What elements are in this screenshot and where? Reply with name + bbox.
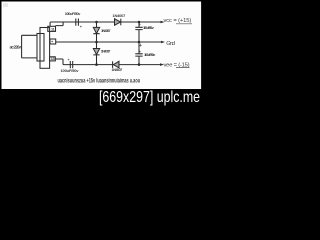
svg-text:+: + [139, 50, 141, 54]
svg-text:11: 11 [51, 28, 55, 32]
svg-text:1N4007: 1N4007 [113, 13, 127, 18]
svg-text:1N4007: 1N4007 [112, 67, 124, 72]
svg-text:vcc = (+15): vcc = (+15) [164, 18, 192, 24]
svg-text:13: 13 [51, 57, 55, 61]
svg-text:1N4007: 1N4007 [101, 48, 111, 53]
svg-text:100uF/50v: 100uF/50v [143, 25, 155, 30]
svg-text:ac 220v: ac 220v [10, 44, 22, 49]
svg-text:+: + [68, 58, 70, 62]
svg-text:100uF/50v: 100uF/50v [61, 68, 80, 73]
svg-text:100uF/50v: 100uF/50v [65, 11, 81, 16]
svg-text:+: + [139, 43, 142, 49]
svg-text:1N4007: 1N4007 [101, 28, 111, 33]
svg-text:[669x297] uplc.me: [669x297] uplc.me [99, 89, 200, 106]
svg-text:uacnisuunszua +15v luaansinnui: uacnisuunszua +15v luaansinnuiaimas u.ao… [58, 78, 141, 85]
svg-text:+: + [138, 22, 141, 27]
svg-text:100uF/50v: 100uF/50v [144, 52, 156, 57]
svg-text:Gnd: Gnd [166, 41, 175, 47]
